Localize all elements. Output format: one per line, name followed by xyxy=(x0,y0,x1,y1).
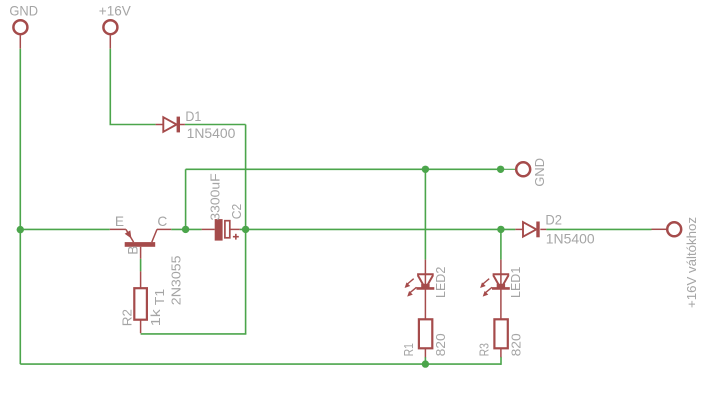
resistor R1 xyxy=(419,319,432,348)
pin D2 cathode lead xyxy=(540,228,546,230)
junction node C2 right xyxy=(242,226,249,233)
pin D1 anode lead xyxy=(156,124,164,126)
terminal GND right xyxy=(516,162,530,176)
pin R2 top lead xyxy=(140,271,142,288)
wire C2 to D2 anode xyxy=(240,228,516,230)
svg-text:2N3055: 2N3055 xyxy=(169,256,184,306)
pin R2 bottom lead xyxy=(140,320,142,333)
terminal +16V xyxy=(103,20,117,34)
wire D1 cathode to corner xyxy=(185,124,246,126)
svg-text:R3: R3 xyxy=(476,343,491,356)
pin transistor emitter lead xyxy=(110,228,126,230)
wire left horizontal to transistor emitter xyxy=(20,228,110,230)
svg-text:D2: D2 xyxy=(545,212,562,227)
wire GND net vertical drop xyxy=(185,169,187,229)
svg-text:B: B xyxy=(126,246,141,255)
junction node GND net at LED2 xyxy=(422,166,429,173)
wire collector node to C2 xyxy=(171,228,201,230)
LED2 xyxy=(405,274,435,296)
wire LED1 branch vertical xyxy=(500,229,502,259)
diode D1 xyxy=(163,117,180,133)
svg-text:LED1: LED1 xyxy=(508,267,523,298)
resistor R3 xyxy=(494,319,507,348)
svg-text:820: 820 xyxy=(509,333,524,356)
pin transistor collector lead xyxy=(157,228,171,230)
wire left vertical from GND terminal to bottom rail xyxy=(19,49,21,364)
pin R1 bottom lead xyxy=(424,348,426,357)
junction node left rail xyxy=(17,226,24,233)
junction node D2/LED1 xyxy=(497,226,504,233)
wire bottom rail xyxy=(20,363,501,365)
terminal +16V valtokhoz output xyxy=(667,222,681,236)
pin output terminal xyxy=(652,228,667,230)
pin LED1 cathode to R3 xyxy=(500,289,502,319)
wire transistor base segment xyxy=(140,259,142,272)
svg-text:GND: GND xyxy=(9,3,38,18)
svg-text:R2: R2 xyxy=(119,309,134,326)
svg-text:C2: C2 xyxy=(229,204,244,220)
svg-text:T1: T1 xyxy=(152,289,167,305)
wire LED2 branch vertical xyxy=(424,169,426,259)
wire +16V to D1 anode xyxy=(110,124,156,126)
capacitor C2 xyxy=(215,219,239,241)
svg-text:1k: 1k xyxy=(148,309,163,326)
pin GND terminal top left xyxy=(19,35,21,48)
wire GND net horizontal xyxy=(186,168,503,170)
wire +16V vertical xyxy=(109,49,111,125)
svg-text:C: C xyxy=(157,214,167,229)
transistor T1 2N3055 xyxy=(125,229,157,246)
diode D2 xyxy=(523,222,540,238)
pin +16V terminal xyxy=(109,35,111,48)
wire R2 bottom horizontal xyxy=(141,333,247,335)
pin R3 bottom lead xyxy=(500,348,502,357)
terminal GND top left xyxy=(13,20,27,34)
svg-text:R1: R1 xyxy=(401,343,416,356)
pin D1 cathode lead xyxy=(180,124,185,126)
pin LED2 anode lead xyxy=(424,260,426,289)
svg-text:+16V váltókhoz: +16V váltókhoz xyxy=(684,217,699,308)
junction node GND net right xyxy=(497,166,504,173)
pin LED2 cathode to R1 xyxy=(424,289,426,319)
svg-text:820: 820 xyxy=(433,333,448,356)
junction node bottom rail at R1 xyxy=(422,360,429,367)
pin D2 anode lead xyxy=(515,228,523,230)
svg-text:GND: GND xyxy=(532,158,547,187)
svg-text:D1: D1 xyxy=(185,109,201,124)
pin transistor base lead upper xyxy=(140,247,142,259)
junction node collector/C2 xyxy=(182,226,189,233)
wire bottom right riser to R3 xyxy=(500,357,502,365)
svg-text:LED2: LED2 xyxy=(433,267,448,298)
pin C2 right lead xyxy=(230,228,239,230)
svg-text:1N5400: 1N5400 xyxy=(187,126,236,141)
wire R1 bottom to rail xyxy=(424,357,426,364)
pin LED1 anode lead xyxy=(500,260,502,289)
resistor R2 xyxy=(134,288,147,320)
wire pin GND right terminal xyxy=(502,168,515,170)
svg-text:1N5400: 1N5400 xyxy=(546,231,595,246)
svg-text:E: E xyxy=(115,214,124,229)
pin C2 left lead xyxy=(202,228,215,230)
svg-text:3300uF: 3300uF xyxy=(207,173,222,220)
LED1 xyxy=(480,274,510,296)
wire vertical x=245 from D1 down to R2 bottom rail xyxy=(245,125,247,334)
svg-text:+16V: +16V xyxy=(99,3,132,18)
wire D2 cathode to output terminal xyxy=(546,228,651,230)
